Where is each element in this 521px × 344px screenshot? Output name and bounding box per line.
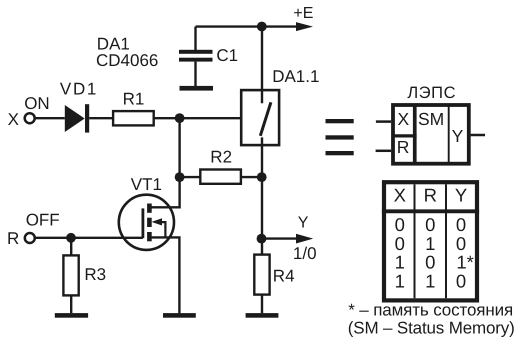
node Y junction <box>257 234 267 244</box>
wire top rail <box>196 25 298 27</box>
wire R2 to switch net <box>241 176 262 178</box>
transistor VT1 <box>119 195 174 250</box>
table row 1 0 1* <box>395 252 474 273</box>
wire R3 to ground <box>70 295 72 313</box>
svg-text:R4: R4 <box>273 267 295 286</box>
node R input terminal <box>25 233 35 243</box>
svg-text:R3: R3 <box>84 265 106 284</box>
table header X R Y <box>394 185 468 206</box>
svg-text:1: 1 <box>425 270 435 291</box>
node junction switch bottom <box>257 172 267 182</box>
ground under C1 <box>180 86 214 91</box>
resistor R3 <box>63 255 78 295</box>
wire R1 to DA1.1 <box>154 117 240 119</box>
svg-text:ON: ON <box>24 94 50 113</box>
svg-text:1/0: 1/0 <box>293 244 317 263</box>
wire X terminal to diode <box>35 117 65 119</box>
node junction X net <box>175 113 185 123</box>
svg-text:Y: Y <box>298 214 309 231</box>
resistor R1 <box>113 111 154 125</box>
analog switch DA1.1 <box>241 90 279 145</box>
svg-text:ЛЭПС: ЛЭПС <box>407 84 455 102</box>
wire junction down to R3 <box>70 238 72 256</box>
svg-text:* – память состояния: * – память состояния <box>348 300 513 319</box>
svg-text:SM: SM <box>418 109 444 129</box>
wire junction to R2 <box>180 176 201 178</box>
ground under R4 <box>246 313 279 318</box>
svg-text:1: 1 <box>395 270 405 291</box>
wire source to ground <box>152 237 180 313</box>
wire Y output pin <box>471 134 485 137</box>
resistor R2 <box>200 170 241 184</box>
wire Y node down to R4 <box>261 239 263 255</box>
table row 0 1 0 <box>395 233 466 254</box>
node junction R net <box>66 233 76 243</box>
ground under VT1 <box>163 313 196 318</box>
svg-text:DA1.1: DA1.1 <box>272 67 319 86</box>
svg-text:+E: +E <box>293 5 313 22</box>
wire R input <box>376 150 392 153</box>
svg-text:C1: C1 <box>216 46 238 65</box>
capacitor C1 <box>179 27 213 86</box>
diode VD1 <box>65 104 89 132</box>
wire top rail down into DA1.1 <box>261 27 263 104</box>
svg-text:OFF: OFF <box>26 210 60 229</box>
wire junction down to R2 node <box>178 118 180 177</box>
output Y arrow <box>296 234 313 244</box>
ground under R3 <box>55 313 88 318</box>
logic block ЛЭПС <box>392 104 469 166</box>
table row 0 0 0 <box>395 214 466 235</box>
table row 1 1 0 <box>395 270 466 291</box>
svg-text:VD1: VD1 <box>60 79 97 98</box>
power +E arrow <box>296 22 313 31</box>
wire R terminal to gate <box>35 237 142 239</box>
svg-text:R: R <box>424 185 437 206</box>
truth table <box>382 182 479 300</box>
wire switch bottom down to Y node <box>261 137 263 238</box>
wire Y output <box>262 237 297 239</box>
svg-text:R: R <box>397 137 410 157</box>
svg-text:X: X <box>394 185 406 206</box>
node X input terminal <box>25 113 35 123</box>
node junction top rail <box>257 22 267 32</box>
svg-text:R1: R1 <box>123 89 145 108</box>
svg-text:Y: Y <box>455 185 467 206</box>
svg-text:X: X <box>8 110 19 129</box>
svg-text:CD4066: CD4066 <box>96 51 158 70</box>
wire drain path <box>151 177 179 207</box>
svg-text:(SM – Status Memory): (SM – Status Memory) <box>348 319 515 338</box>
svg-text:R: R <box>7 229 19 248</box>
svg-text:R2: R2 <box>210 148 232 167</box>
wire R4 to ground <box>261 295 263 314</box>
resistor R4 <box>254 255 269 295</box>
node junction R2 left <box>175 172 185 182</box>
wire X input <box>376 120 391 123</box>
svg-text:VT1: VT1 <box>131 175 162 194</box>
svg-text:Y: Y <box>452 126 464 146</box>
wire diode to R1 <box>89 117 113 119</box>
svg-text:0: 0 <box>456 270 466 291</box>
svg-text:X: X <box>397 109 409 129</box>
equivalence bars <box>326 119 354 155</box>
